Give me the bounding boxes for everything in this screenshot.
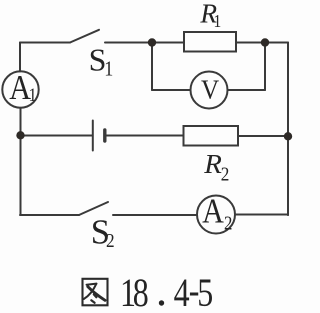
caption period: [159, 300, 164, 305]
ammeter A1 circle: [2, 71, 38, 107]
label S1: [89, 42, 114, 81]
ammeter A1 letter: [9, 69, 36, 108]
battery short plate: [103, 130, 106, 141]
node junction right of R1: [261, 38, 269, 46]
svg-text:R: R: [203, 150, 222, 180]
wire battery to R2: [105, 135, 184, 137]
wire right outer vertical: [287, 43, 289, 216]
node battery branch right: [284, 132, 292, 140]
svg-text:184-5: 184-5: [120, 268, 213, 313]
voltmeter V circle: [191, 72, 228, 109]
wire left vertical below A1: [20, 108, 22, 215]
svg-text:2: 2: [221, 163, 230, 186]
wire voltmeter branch left vertical: [151, 43, 153, 91]
wire voltmeter branch right vertical: [264, 43, 266, 91]
wire bottom left horizontal: [20, 214, 79, 216]
wire R1 to top-right corner: [236, 42, 288, 44]
wire R2 to right vertical: [238, 135, 288, 137]
resistor R1: [184, 32, 236, 52]
switch S2: [79, 202, 108, 215]
svg-text:2: 2: [224, 212, 232, 233]
wire battery branch left: [21, 135, 93, 137]
svg-text:A: A: [202, 192, 224, 231]
caption character 图: [83, 279, 108, 306]
resistor R2: [184, 126, 239, 146]
label S2: [91, 214, 115, 253]
node junction left of R1: [148, 38, 156, 46]
wire node to R1: [152, 42, 184, 44]
label R1: [199, 0, 221, 31]
svg-text:1: 1: [104, 58, 113, 81]
svg-text:2: 2: [106, 230, 115, 253]
svg-text:1: 1: [214, 11, 222, 31]
ammeter A2 letter: [202, 192, 232, 233]
node battery branch left: [16, 131, 24, 139]
wire A2 to bottom-right corner: [235, 214, 288, 217]
switch S1: [70, 30, 99, 43]
ammeter A2 circle: [197, 196, 235, 234]
svg-text:V: V: [201, 75, 219, 105]
wire voltmeter branch left horizontal: [152, 89, 191, 91]
wire top-left horizontal: [20, 42, 70, 44]
wire left vertical above A1: [19, 43, 21, 72]
wire S1 right contact to node: [105, 42, 152, 44]
label R2: [203, 150, 229, 186]
wire S2 right contact to A2: [113, 214, 197, 216]
battery long plate: [92, 121, 94, 151]
wire voltmeter branch right horizontal: [228, 89, 266, 91]
svg-text:1: 1: [29, 84, 37, 105]
